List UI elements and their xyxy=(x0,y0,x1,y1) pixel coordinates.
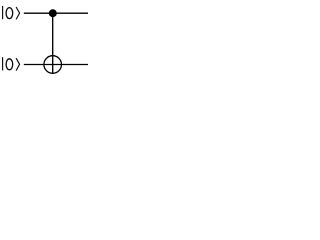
zero of ket xyxy=(6,59,13,70)
ket label |0> for qubit q0 xyxy=(3,6,20,19)
angle bracket of ket xyxy=(16,7,20,19)
background xyxy=(0,0,89,85)
CNOT target circle on q1 xyxy=(44,56,62,74)
zero of ket xyxy=(6,8,13,19)
angle bracket of ket xyxy=(16,58,20,70)
ket label |0> for qubit q1 xyxy=(3,57,20,70)
wire qubit q1 xyxy=(24,64,88,66)
bar of ket xyxy=(2,57,4,70)
bar of ket xyxy=(2,6,4,19)
wire CNOT vertical link xyxy=(52,13,54,73)
wire qubit q0 xyxy=(24,12,88,14)
control dot on q0 xyxy=(49,9,57,17)
